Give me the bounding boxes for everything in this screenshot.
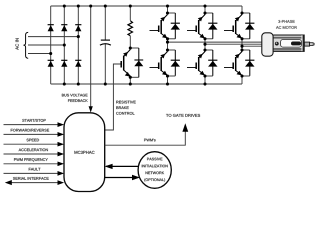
wire: SPEED input line	[4, 143, 59, 145]
wire: leg U high-side collector to diode	[168, 12, 176, 14]
diode: freewheel W low-side	[245, 50, 254, 76]
node: leg W high emitter corner	[240, 37, 243, 40]
label: INITIALIZATION	[142, 165, 168, 168]
wire: leg V low-side emitter to diode	[205, 75, 213, 77]
diode: freewheel V low-side	[208, 50, 217, 76]
diode: freewheel U high-side	[171, 13, 180, 39]
label: RESISTIVE	[116, 101, 135, 104]
wire: motor phase line U	[168, 41, 263, 43]
arrow: START/STOP into MCU	[58, 122, 65, 127]
wire: AC input line 1	[28, 36, 78, 38]
brace: AC input	[23, 32, 28, 58]
label: CONTROL	[116, 112, 134, 115]
wire: bus voltage feedback tap	[90, 6, 92, 107]
wire: leg W low-side collector to diode	[242, 49, 250, 51]
node: brake emitter	[129, 76, 132, 79]
node: top rail / bridge leg 2	[63, 4, 66, 7]
wire: inverter leg V top vertical	[204, 6, 206, 13]
label: BUS VOLTAGE	[62, 94, 88, 97]
label: FORWARD/REVERSE	[11, 129, 49, 132]
wire: top DC bus rail	[51, 5, 242, 7]
node: leg W low emitter	[240, 74, 243, 77]
wire: brake emitter to bottom rail	[129, 77, 131, 84]
label: START/STOP	[22, 119, 45, 122]
arrow: bus voltage feedback into MCU	[89, 106, 93, 112]
label: NETWORK	[146, 172, 165, 175]
block: passive initialization network oval	[138, 152, 171, 189]
wire: leg W phase node segment	[241, 39, 243, 50]
wire: motor phase line W	[242, 45, 263, 47]
node: phase V tap	[203, 43, 206, 46]
node: brake collector	[129, 46, 132, 49]
arrow: MCU into network	[132, 175, 140, 180]
diode: rectifier bridge top leg 3	[75, 25, 81, 32]
motor bolt	[275, 42, 279, 46]
wire: capacitor top lead	[104, 6, 106, 40]
wire: capacitor bottom lead	[104, 44, 106, 84]
node: phase U tap	[166, 41, 169, 44]
node: bottom rail / brake leg	[129, 82, 132, 85]
capacitor: DC bus capacitor	[100, 40, 111, 45]
wire: brake collector node to freewheel diode	[130, 47, 139, 49]
node: leg W collector corner	[240, 11, 243, 14]
diode: brake freewheel diode	[134, 48, 143, 77]
node: AC line 3 to bridge leg 1	[49, 52, 52, 55]
label: AC MOTOR	[276, 26, 297, 29]
label: MC3PHAC	[74, 151, 94, 154]
diode: rectifier bridge top leg 1	[48, 25, 54, 32]
wire: leg V high-side collector to diode	[205, 12, 213, 14]
node: bottom rail / leg V	[203, 82, 206, 85]
wire: inverter leg W top vertical	[241, 6, 243, 13]
label: TO GATE DRIVES	[166, 114, 200, 117]
wire: inverter leg U top vertical	[167, 6, 169, 13]
wire: leg U low-side emitter to diode	[168, 75, 176, 77]
label: PWM's	[144, 139, 155, 142]
node: top rail / capacitor	[104, 4, 107, 7]
arrow: FORWARD/REVERSE into MCU	[58, 132, 65, 137]
wire: bridge leg 2 vertical	[63, 6, 65, 84]
wire: bottom DC bus rail	[51, 83, 242, 85]
node: bottom rail / bridge leg 2	[63, 82, 66, 85]
diode: freewheel W high-side	[245, 13, 254, 39]
wire: FORWARD/REVERSE input line	[4, 133, 59, 135]
wire: leg W high-side emitter to diode	[242, 38, 250, 40]
node: leg W low collector corner	[240, 48, 243, 51]
motor shaft	[304, 42, 314, 46]
label: PWM FREQUENCY	[14, 158, 48, 161]
resistor: brake resistor	[128, 21, 133, 36]
transistor: IGBT V high-side	[187, 15, 205, 39]
wire: motor phase line V	[205, 43, 263, 45]
wire: brake resistor top lead	[129, 6, 131, 21]
transistor: IGBT V low-side	[187, 52, 205, 76]
wire: leg U low-side collector to diode	[168, 49, 176, 51]
wire: SERIAL INTERFACE input line	[11, 182, 59, 184]
node: leg U collector corner	[166, 11, 169, 14]
label: 3-PHASE	[278, 20, 294, 23]
node: top rail / leg V	[203, 4, 206, 7]
node: bottom rail / leg U	[166, 82, 169, 85]
wire: leg V low-side collector to diode	[205, 49, 213, 51]
diode: rectifier bridge bottom leg 1	[48, 60, 54, 67]
arrow: SPEED into MCU	[58, 142, 65, 147]
arrow: up to gate drives	[182, 123, 188, 132]
wire: leg W high-side collector to diode	[242, 12, 250, 14]
node: bottom rail / bridge leg 3	[77, 82, 80, 85]
label: FAULT	[29, 168, 41, 171]
node: leg V low emitter	[203, 74, 206, 77]
wire: leg U phase node segment	[167, 39, 169, 50]
node: leg V collector corner	[203, 11, 206, 14]
motor: 3-phase AC motor body	[273, 35, 304, 51]
node: top rail / bridge leg 3	[77, 4, 80, 7]
node: AC line 2 to bridge leg 2	[63, 43, 66, 46]
wire: leg V high-side emitter to diode	[205, 38, 213, 40]
wire: START/STOP input line	[4, 124, 59, 126]
diode: rectifier bridge bottom leg 3	[75, 60, 81, 67]
diode: rectifier bridge bottom leg 2	[61, 60, 67, 67]
op-amp U1: MC3PHAC motor controller block	[64, 113, 105, 192]
wire: ACCELERATION input line	[4, 153, 59, 155]
wire: bridge leg 1 vertical	[50, 6, 52, 84]
transistor: brake chopper IGBT	[121, 50, 130, 77]
wire: MCU to network	[105, 177, 133, 179]
arrow: SERIAL INTERFACE outward	[5, 180, 12, 185]
node: top rail / leg U	[166, 4, 169, 7]
label: ACCELERATION	[19, 148, 48, 151]
wire: bridge leg 3 vertical	[77, 6, 79, 84]
node: leg V high emitter corner	[203, 37, 206, 40]
wire: leg W low-side emitter to diode	[242, 75, 250, 77]
label: SERIAL INTERFACE	[13, 177, 49, 180]
arrow: PWM FREQUENCY into MCU	[58, 161, 65, 166]
arrow: network into MCU	[105, 164, 113, 169]
label: FEEDBACK	[68, 99, 88, 102]
wire: AC input line 3	[28, 53, 51, 55]
label: (OPTIONAL)	[144, 178, 165, 181]
wire: AC input line 2	[28, 44, 64, 46]
node: leg U low emitter	[166, 74, 169, 77]
wire: leg W bottom vertical	[241, 76, 243, 84]
wire: brake resistor bottom lead	[129, 36, 131, 48]
wire: leg U bottom vertical	[167, 76, 169, 84]
transistor: IGBT W low-side	[224, 52, 242, 76]
wire: leg U high-side emitter to diode	[168, 38, 176, 40]
arrow: SERIAL INTERFACE into MCU	[58, 180, 65, 185]
arrow: ACCELERATION into MCU	[58, 152, 65, 157]
label: AC IN	[15, 38, 18, 50]
transistor: IGBT U high-side	[150, 15, 168, 39]
diode: freewheel V high-side	[208, 13, 217, 39]
wire: leg V bottom vertical	[204, 76, 206, 84]
wire: PWM FREQUENCY input line	[4, 163, 59, 165]
diode: freewheel U low-side	[171, 50, 180, 76]
node: bottom rail / capacitor	[104, 82, 107, 85]
wire: FAULT input line	[4, 172, 59, 174]
transistor: IGBT U low-side	[150, 52, 168, 76]
label: SPEED	[27, 139, 40, 142]
node: top rail / feedback tap	[89, 4, 92, 7]
wire: network to MCU	[106, 165, 139, 167]
wire: PWM output run to gate drives	[105, 131, 186, 145]
node: leg V low collector corner	[203, 48, 206, 51]
motor nameplate	[281, 40, 302, 48]
motor junction box	[262, 33, 273, 56]
label: BRAKE	[116, 106, 128, 109]
node: AC line 1 to bridge leg 3	[77, 35, 80, 38]
node: leg U high emitter corner	[166, 37, 169, 40]
node: leg U low collector corner	[166, 48, 169, 51]
transistor: IGBT W high-side	[224, 15, 242, 39]
node: top rail / brake resistor	[129, 4, 132, 7]
arrow: FAULT into MCU	[58, 171, 65, 176]
node: phase W tap	[240, 45, 243, 48]
wire: brake emitter node to freewheel diode	[130, 76, 139, 78]
diode: rectifier bridge top leg 2	[61, 25, 67, 32]
wire: leg V phase node segment	[204, 39, 206, 50]
label: PASSIVE	[147, 158, 162, 161]
wire: resistive brake gate control run	[105, 64, 122, 130]
